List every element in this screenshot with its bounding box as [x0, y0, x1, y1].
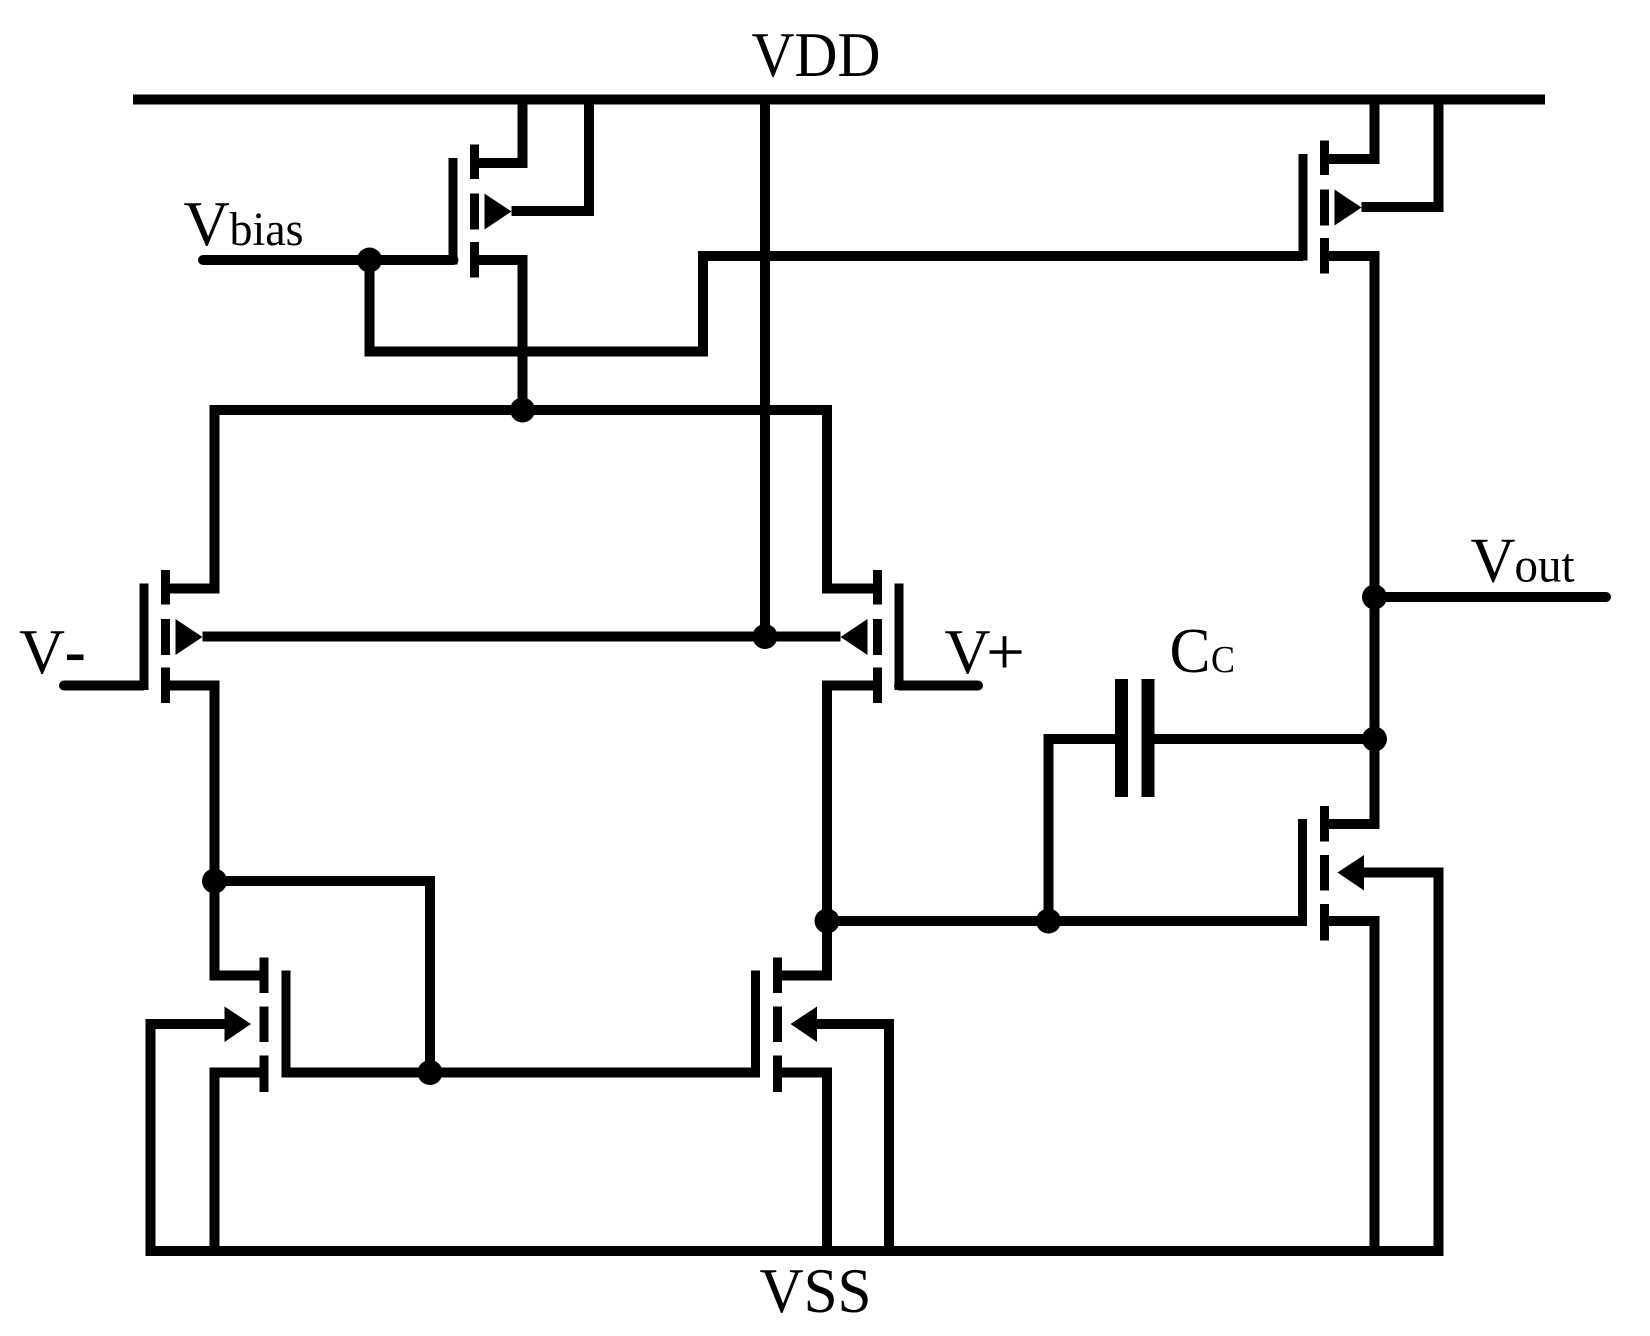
svg-text:V: V — [945, 616, 991, 687]
svg-text:C: C — [1211, 639, 1235, 681]
svg-text:bias: bias — [230, 203, 304, 256]
svg-text:V: V — [184, 188, 230, 259]
svg-text:VSS: VSS — [760, 1255, 872, 1326]
svg-text:out: out — [1515, 538, 1575, 593]
svg-text:V: V — [1471, 525, 1516, 596]
svg-text:C: C — [1170, 615, 1211, 686]
svg-text:VDD: VDD — [752, 19, 881, 90]
svg-text:V: V — [19, 616, 65, 687]
